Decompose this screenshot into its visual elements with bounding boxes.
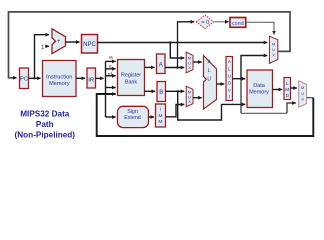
wire ALUOut -> Data Memory address	[233, 78, 246, 80]
wire ALUOut bypass -> final MUX input 2	[287, 103, 296, 113]
svg-text:U: U	[272, 47, 275, 52]
svg-text:L: L	[286, 81, 289, 87]
wire 1 -> adder	[45, 45, 49, 47]
svg-text:A: A	[228, 59, 231, 64]
svg-text:PC: PC	[20, 76, 28, 82]
wire rt -> Register Bank	[106, 68, 116, 70]
svg-text:Memory: Memory	[49, 81, 70, 87]
svg-text:U: U	[301, 91, 304, 96]
svg-text:L: L	[208, 68, 211, 74]
wire NPC -> top-right MUX input 1	[98, 42, 268, 44]
svg-text:X: X	[301, 97, 304, 102]
junction at PC output	[33, 77, 35, 79]
svg-text:U: U	[207, 77, 211, 83]
svg-text:U: U	[228, 73, 231, 78]
final MUX (write-back select)	[299, 81, 307, 107]
svg-text:B: B	[159, 90, 163, 96]
wire rs -> Register Bank	[106, 60, 116, 62]
svg-text:X: X	[188, 99, 191, 104]
adder	[52, 29, 66, 54]
wire diamond -> cond	[214, 21, 229, 23]
wire final MUX output (blue segment)	[307, 97, 314, 99]
svg-text:I: I	[160, 107, 161, 113]
svg-text:Path: Path	[36, 120, 54, 129]
title: MIPS32 Data Path (Non-Pipelined)	[15, 109, 76, 139]
svg-text:(Non-Pipelined): (Non-Pipelined)	[15, 131, 76, 140]
wire PC tap -> adder top input	[35, 35, 50, 79]
svg-text:+: +	[57, 39, 61, 45]
wire IM -> IR	[76, 77, 85, 79]
Data Memory	[247, 70, 273, 108]
Instruction Memory	[43, 61, 77, 97]
ALU	[204, 56, 217, 110]
wire ALUOut tap -> top-right MUX input 2	[241, 56, 267, 79]
svg-text:= 0: = 0	[201, 20, 209, 26]
wire A tap -> =0 diamond	[178, 22, 195, 68]
junction B output	[177, 90, 179, 92]
wire MUX2 -> ALU	[193, 97, 202, 99]
svg-text:Memory: Memory	[249, 90, 269, 96]
svg-text:NPC: NPC	[83, 42, 96, 48]
wire IMM -> MUX2 input 2	[166, 105, 185, 117]
=0 test diamond	[196, 15, 214, 29]
wire ALUOut bypass vertical	[240, 79, 242, 114]
wire A -> MUX1 input 2	[165, 67, 184, 69]
MUX1 (ALU input 1 select)	[186, 52, 193, 73]
B register	[157, 82, 166, 102]
wire ALUOut bypass horizontal (gray)	[241, 112, 287, 114]
svg-text:M: M	[159, 113, 163, 119]
svg-text:cond: cond	[232, 21, 244, 27]
wire B tap -> Data Memory write data	[178, 91, 246, 120]
svg-text:D: D	[286, 93, 290, 99]
wire MUX1 -> ALU	[193, 61, 202, 63]
wire IR -> field bus	[96, 77, 104, 79]
svg-text:rd: rd	[108, 71, 113, 77]
svg-text:Data: Data	[253, 83, 266, 89]
IMM register	[156, 104, 166, 127]
svg-text:X: X	[272, 53, 275, 58]
PC	[20, 68, 29, 89]
IR	[87, 68, 96, 88]
A register	[157, 54, 166, 74]
NPC	[82, 35, 98, 54]
svg-text:Instruction: Instruction	[46, 75, 72, 81]
wire write-back loop -> Register Bank	[97, 94, 314, 136]
junction ALUOut output	[240, 78, 242, 80]
MUX2 (ALU input 2 select)	[186, 86, 193, 107]
wire imm field -> Register Bank lower input	[106, 87, 116, 89]
svg-text:M: M	[301, 85, 304, 90]
svg-text:MIPS32 Data: MIPS32 Data	[20, 109, 70, 118]
cond register	[230, 18, 246, 28]
wire Data Memory -> LMD	[273, 89, 283, 91]
svg-text:rs: rs	[109, 55, 114, 61]
Register Bank	[118, 60, 145, 96]
LMD register	[284, 78, 291, 100]
wire Sign Extend -> IMM	[149, 116, 155, 118]
svg-text:Bank: Bank	[125, 79, 138, 85]
svg-text:IR: IR	[88, 78, 94, 84]
wire NPC tap -> MUX1 input 1	[170, 43, 184, 59]
wire LMD -> final MUX input 1	[291, 87, 297, 89]
wire RB -> A	[145, 66, 155, 68]
ALUOut register	[226, 57, 233, 101]
svg-text:A: A	[159, 62, 163, 68]
wire PC -> Instruction Memory	[29, 77, 41, 79]
svg-text:M: M	[159, 119, 163, 125]
svg-text:M: M	[285, 87, 289, 93]
wire rd -> Register Bank	[106, 75, 116, 77]
wire bus bottom -> Sign Extend	[106, 116, 116, 118]
wire B -> MUX2 input 1	[166, 90, 185, 92]
top-right MUX (next PC select)	[270, 36, 278, 63]
svg-text:Extend: Extend	[124, 115, 141, 121]
wire ALU -> ALUOut	[217, 83, 225, 85]
wire: PC update loop (topMUX output -> top edge -> left edge -> PC)	[9, 12, 291, 78]
svg-text:Register: Register	[121, 73, 141, 79]
svg-text:X: X	[188, 65, 191, 70]
wire cond -> top-right MUX select	[246, 22, 274, 34]
bus: IR fields vertical bus	[105, 61, 107, 117]
wire RB -> B	[145, 90, 156, 92]
junction A output	[176, 66, 178, 68]
Sign Extend	[118, 106, 149, 127]
wire adder -> NPC	[66, 41, 80, 43]
junction NPC wire -> MUX1 drop	[169, 41, 171, 43]
svg-text:1: 1	[41, 45, 44, 51]
svg-text:M: M	[272, 42, 275, 47]
